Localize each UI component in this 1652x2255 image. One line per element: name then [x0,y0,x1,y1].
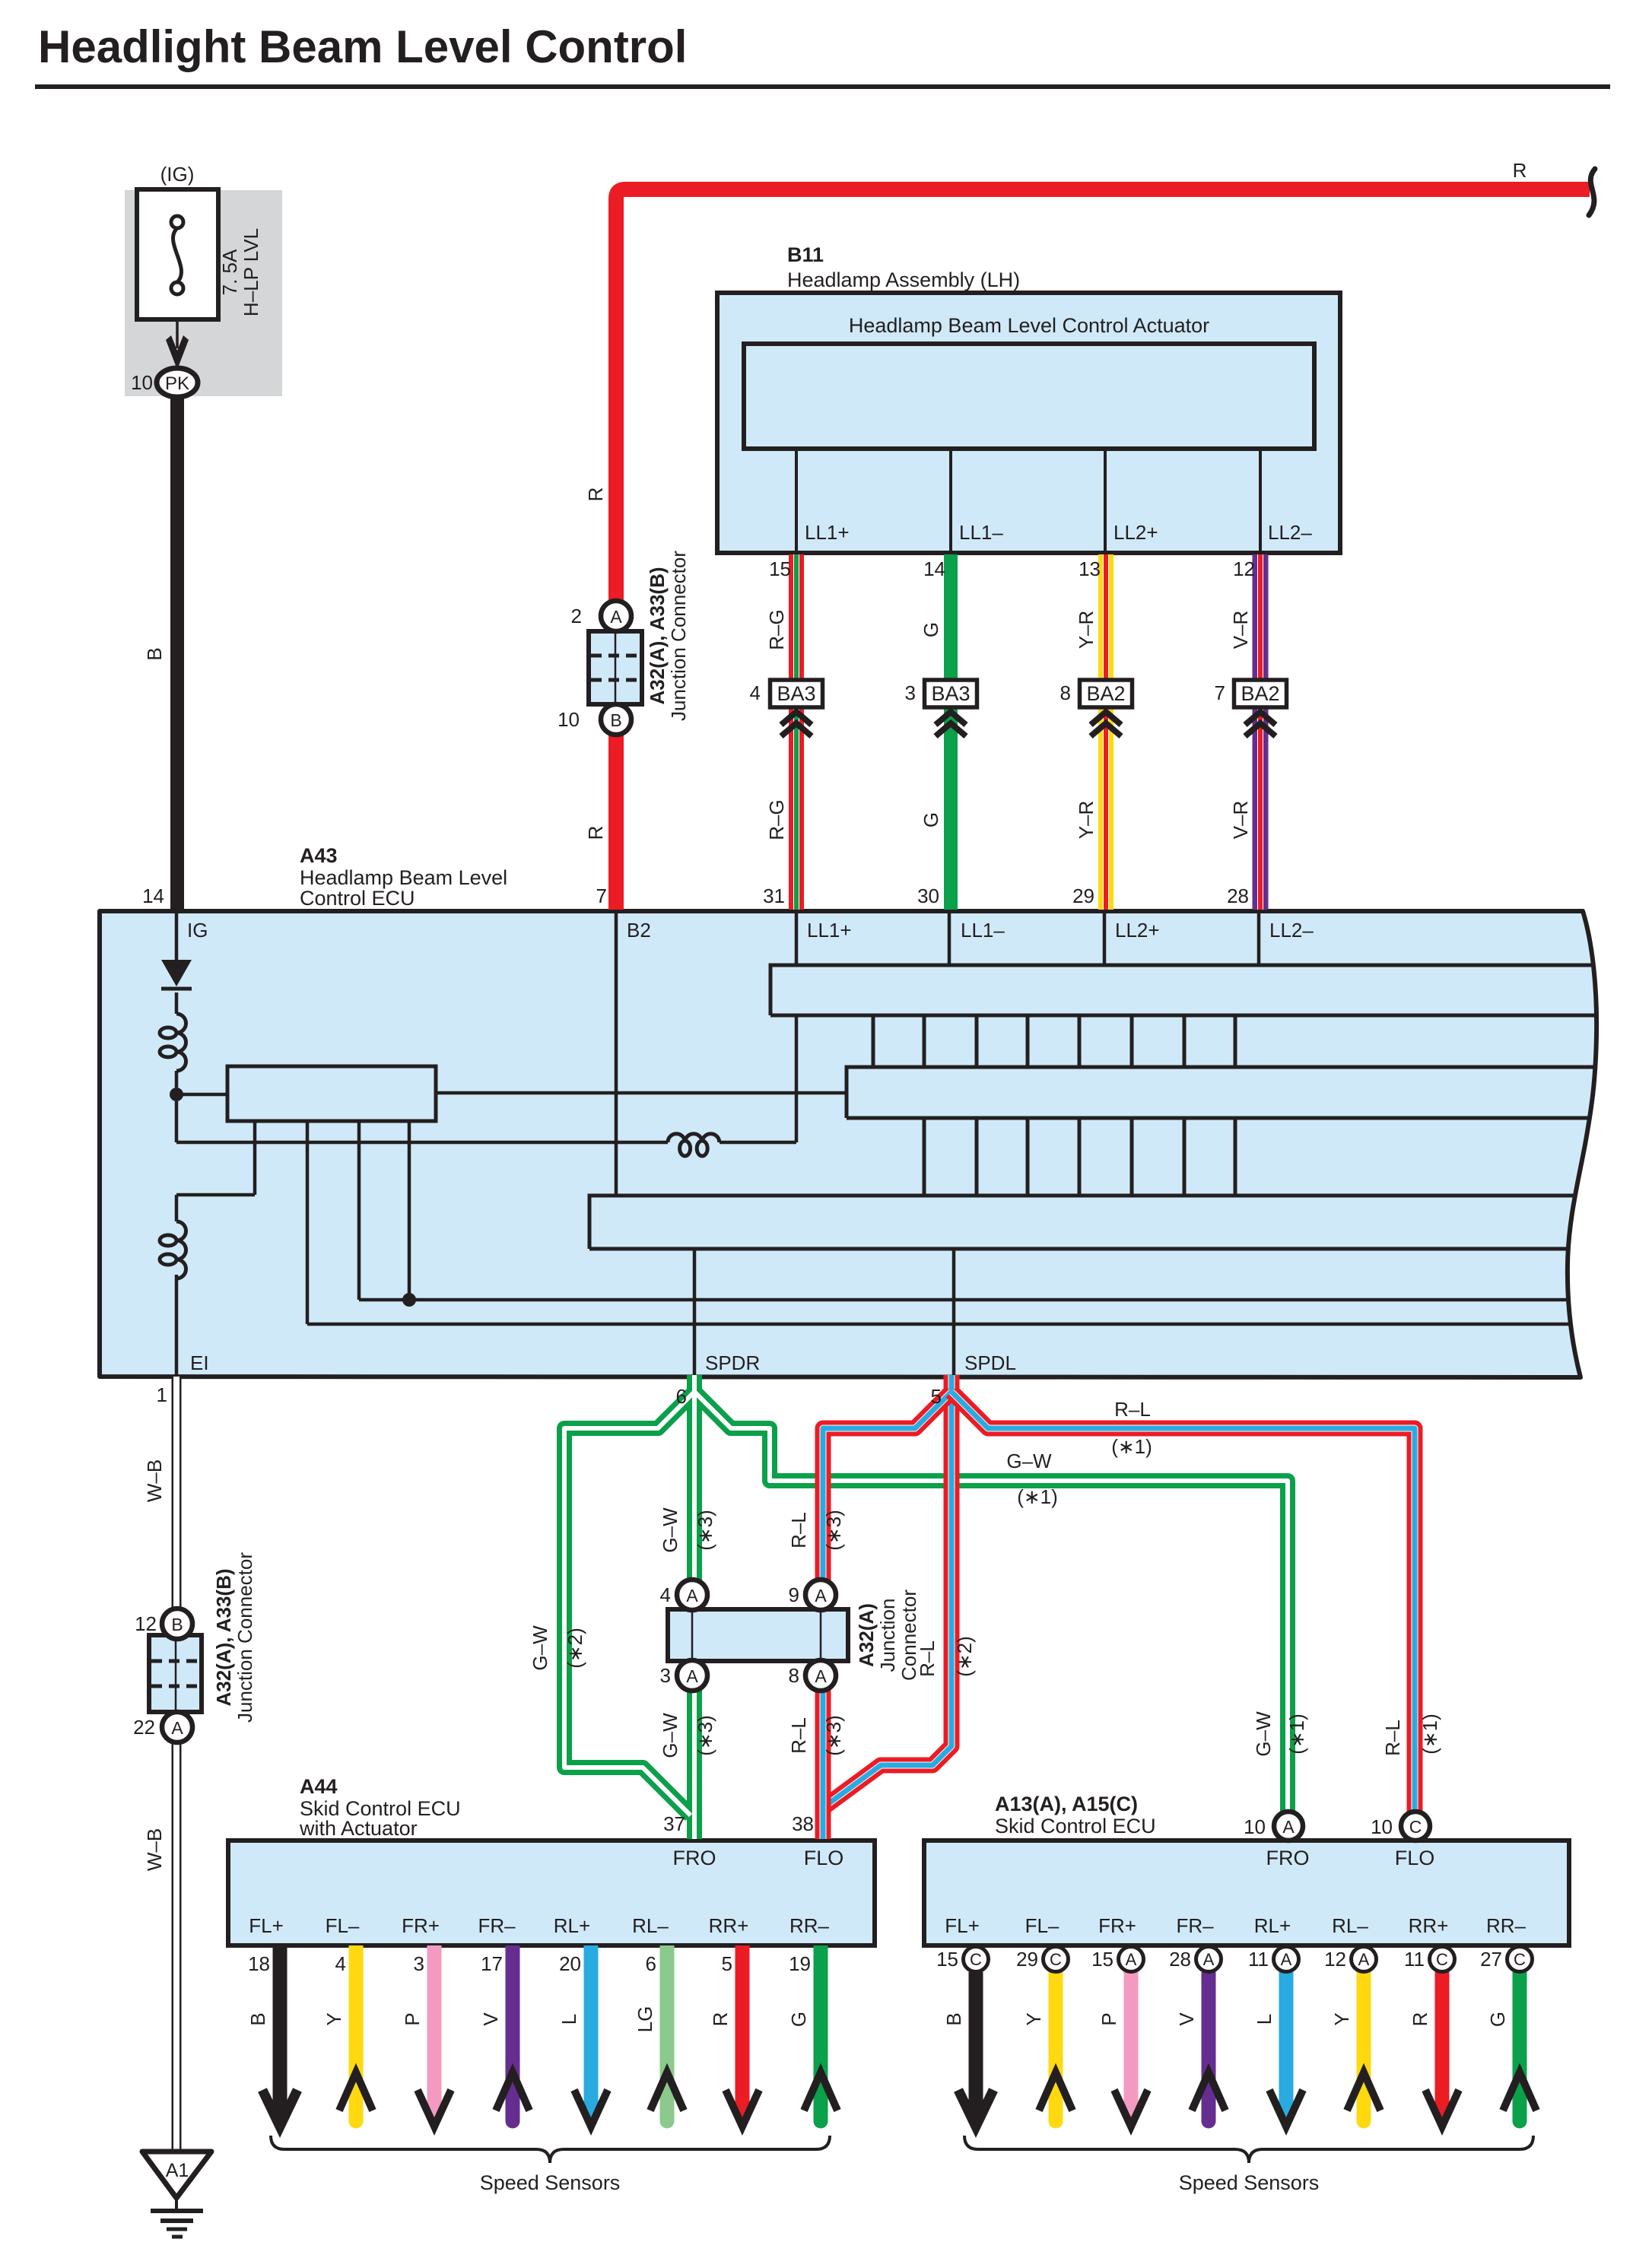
svg-text:22: 22 [133,1716,155,1739]
svg-text:R: R [709,2012,732,2027]
svg-text:27: 27 [1480,1948,1502,1971]
svg-text:R–L: R–L [1114,1398,1151,1421]
svg-text:G–W: G–W [659,1713,681,1758]
svg-text:3: 3 [414,1952,424,1975]
svg-text:P: P [1098,2012,1120,2025]
svg-text:FR+: FR+ [1098,1914,1136,1937]
svg-text:5: 5 [722,1952,732,1975]
svg-text:11: 11 [1404,1948,1425,1971]
svg-text:Headlamp Beam Level: Headlamp Beam Level [300,866,507,889]
svg-text:29: 29 [1072,885,1094,907]
svg-text:Headlamp Beam Level Control Ac: Headlamp Beam Level Control Actuator [849,314,1209,337]
svg-text:37: 37 [663,1812,685,1835]
svg-text:14: 14 [923,557,945,580]
svg-text:LL2+: LL2+ [1115,919,1160,942]
svg-text:C: C [1409,1817,1422,1837]
svg-text:FRO: FRO [673,1847,716,1869]
svg-text:Control ECU: Control ECU [300,887,415,910]
svg-text:(∗3): (∗3) [694,1510,716,1551]
svg-text:RL–: RL– [1332,1914,1368,1937]
svg-text:2: 2 [571,605,582,627]
svg-text:FL–: FL– [326,1914,360,1937]
svg-text:G: G [787,2012,810,2027]
svg-text:BA2: BA2 [1086,682,1125,705]
svg-text:A: A [610,607,622,627]
svg-text:Y: Y [1330,2012,1353,2025]
svg-text:Connector: Connector [897,1590,920,1681]
svg-text:FR+: FR+ [402,1914,440,1937]
svg-text:Junction Connector: Junction Connector [667,551,690,721]
svg-text:IG: IG [187,919,208,942]
svg-text:FL+: FL+ [945,1914,980,1937]
svg-text:(∗2): (∗2) [953,1636,976,1677]
svg-text:A: A [171,1718,183,1738]
svg-text:4: 4 [660,1583,671,1606]
svg-text:7: 7 [1215,681,1225,704]
svg-text:Y–R: Y–R [1075,801,1098,840]
svg-text:A: A [686,1586,698,1605]
svg-text:LL1–: LL1– [959,521,1003,544]
svg-text:Speed Sensors: Speed Sensors [1179,2171,1320,2194]
svg-text:(∗3): (∗3) [822,1510,845,1551]
svg-text:LL2–: LL2– [1269,919,1314,942]
svg-text:A13(A), A15(C): A13(A), A15(C) [995,1793,1138,1815]
svg-text:(IG): (IG) [160,163,195,186]
svg-text:RR+: RR+ [1409,1914,1449,1937]
svg-text:LG: LG [634,2006,656,2033]
svg-text:15: 15 [769,557,791,580]
svg-text:B2: B2 [627,919,651,942]
svg-text:RL+: RL+ [554,1914,590,1937]
svg-text:31: 31 [763,885,785,907]
svg-text:5: 5 [931,1385,942,1408]
svg-text:L: L [558,2014,580,2025]
svg-text:8: 8 [1060,681,1071,704]
svg-text:C: C [970,1950,982,1969]
svg-text:RL–: RL– [632,1914,669,1937]
svg-text:RR–: RR– [789,1914,830,1937]
svg-text:10: 10 [558,708,580,731]
svg-text:12: 12 [1324,1948,1346,1971]
svg-text:20: 20 [559,1952,581,1975]
svg-text:FRO: FRO [1266,1847,1310,1869]
svg-text:Junction: Junction [876,1599,899,1672]
svg-text:RR–: RR– [1486,1914,1527,1937]
svg-text:B: B [246,2012,269,2025]
svg-text:B: B [143,647,166,660]
svg-text:15: 15 [936,1948,958,1971]
svg-text:G–W: G–W [659,1507,681,1553]
svg-text:L: L [1253,2014,1276,2025]
svg-text:Y–R: Y–R [1075,611,1098,650]
svg-text:G–W: G–W [529,1625,551,1671]
svg-text:LL2–: LL2– [1268,521,1312,544]
svg-text:R–L: R–L [787,1512,810,1548]
svg-text:17: 17 [481,1952,503,1975]
svg-text:W–B: W–B [143,1459,166,1502]
svg-text:LL1+: LL1+ [807,919,852,942]
svg-text:FR–: FR– [478,1914,516,1937]
svg-text:EI: EI [190,1351,209,1374]
svg-text:B11: B11 [787,243,824,266]
svg-text:V–R: V–R [1229,801,1252,840]
svg-text:(∗1): (∗1) [1285,1713,1308,1755]
svg-text:30: 30 [917,885,939,907]
svg-text:W–B: W–B [143,1828,166,1871]
svg-text:A: A [1126,1950,1137,1969]
svg-text:(∗3): (∗3) [822,1715,845,1756]
svg-text:A: A [1203,1950,1215,1969]
svg-text:H–LP LVL: H–LP LVL [240,228,262,316]
svg-text:G: G [1486,2012,1509,2027]
svg-text:Skid Control ECU: Skid Control ECU [995,1815,1156,1837]
svg-text:Y: Y [1022,2012,1045,2025]
svg-text:A: A [815,1586,827,1605]
svg-text:C: C [1050,1950,1062,1969]
svg-text:Junction Connector: Junction Connector [234,1552,256,1723]
svg-text:1: 1 [157,1383,167,1406]
svg-text:V: V [479,2012,502,2026]
svg-text:A32(A), A33(B): A32(A), A33(B) [646,567,669,704]
svg-text:Y: Y [322,2012,345,2025]
svg-text:B: B [942,2012,965,2025]
svg-text:(∗1): (∗1) [1418,1713,1441,1755]
svg-text:V–R: V–R [1229,611,1252,650]
svg-text:LL1+: LL1+ [805,521,850,544]
svg-text:28: 28 [1227,885,1249,907]
svg-text:R: R [584,826,607,840]
svg-text:(∗2): (∗2) [564,1628,586,1669]
svg-text:12: 12 [1233,557,1255,580]
svg-text:12: 12 [135,1612,157,1635]
svg-text:SPDL: SPDL [964,1351,1016,1374]
svg-text:8: 8 [789,1664,799,1687]
svg-text:B: B [610,710,621,730]
svg-text:LL2+: LL2+ [1114,521,1158,544]
svg-text:PK: PK [165,373,189,394]
svg-text:29: 29 [1016,1948,1038,1971]
svg-text:BA3: BA3 [777,682,815,705]
svg-text:19: 19 [789,1952,811,1975]
svg-text:FLO: FLO [1395,1847,1435,1869]
svg-text:A: A [1281,1950,1292,1969]
svg-text:A: A [815,1666,827,1686]
svg-text:6: 6 [646,1952,656,1975]
svg-text:A: A [1282,1817,1295,1837]
svg-text:Headlight Beam Level Control: Headlight Beam Level Control [38,21,687,72]
svg-text:7. 5A: 7. 5A [218,249,241,295]
svg-text:A32(A): A32(A) [855,1603,878,1667]
svg-text:C: C [1436,1950,1448,1969]
svg-text:R–L: R–L [1381,1720,1404,1756]
svg-text:P: P [401,2012,424,2025]
svg-text:BA3: BA3 [931,682,970,705]
svg-text:11: 11 [1248,1948,1269,1971]
svg-text:FL+: FL+ [249,1914,284,1937]
svg-text:R: R [584,488,607,502]
svg-text:(∗3): (∗3) [694,1715,716,1756]
svg-text:G–W: G–W [1006,1450,1052,1472]
svg-text:R–G: R–G [765,609,788,650]
svg-text:G: G [920,622,942,637]
svg-text:FR–: FR– [1176,1914,1214,1937]
svg-text:28: 28 [1169,1948,1191,1971]
svg-text:R–L: R–L [787,1717,810,1754]
svg-text:A32(A), A33(B): A32(A), A33(B) [212,1568,235,1706]
svg-text:3: 3 [905,681,916,704]
svg-text:A: A [1358,1950,1370,1969]
svg-text:R: R [1513,159,1527,182]
svg-text:10: 10 [131,371,153,394]
svg-text:(∗1): (∗1) [1017,1485,1058,1508]
svg-text:with Actuator: with Actuator [299,1817,418,1840]
svg-text:13: 13 [1079,557,1101,580]
svg-text:C: C [1514,1950,1526,1969]
svg-text:9: 9 [789,1583,799,1606]
svg-text:Headlamp Assembly (LH): Headlamp Assembly (LH) [787,268,1020,291]
svg-text:A44: A44 [300,1775,338,1798]
svg-text:14: 14 [142,885,164,907]
svg-text:LL1–: LL1– [961,919,1005,942]
svg-text:4: 4 [750,681,761,704]
svg-text:A1: A1 [166,2160,189,2181]
svg-text:B: B [171,1615,183,1634]
svg-text:G: G [920,812,942,827]
svg-text:38: 38 [792,1812,814,1835]
svg-text:A43: A43 [300,844,338,867]
svg-text:R–G: R–G [765,799,788,840]
svg-text:V: V [1175,2012,1198,2026]
svg-text:FLO: FLO [804,1847,844,1869]
svg-text:G–W: G–W [1252,1711,1275,1757]
svg-text:7: 7 [596,885,607,907]
svg-text:RR+: RR+ [709,1914,749,1937]
svg-text:RL+: RL+ [1254,1914,1291,1937]
svg-text:A: A [686,1666,698,1686]
svg-text:15: 15 [1091,1948,1114,1971]
svg-text:6: 6 [676,1385,687,1408]
svg-text:SPDR: SPDR [705,1351,760,1374]
svg-text:R: R [1409,2012,1431,2027]
svg-text:18: 18 [248,1952,270,1975]
svg-text:FL–: FL– [1025,1914,1060,1937]
svg-text:4: 4 [335,1952,346,1975]
svg-text:Speed Sensors: Speed Sensors [480,2171,621,2194]
svg-text:10: 10 [1244,1815,1266,1838]
svg-text:10: 10 [1371,1815,1393,1838]
svg-text:(∗1): (∗1) [1111,1435,1152,1458]
svg-text:3: 3 [660,1664,671,1687]
svg-text:BA2: BA2 [1241,682,1279,705]
